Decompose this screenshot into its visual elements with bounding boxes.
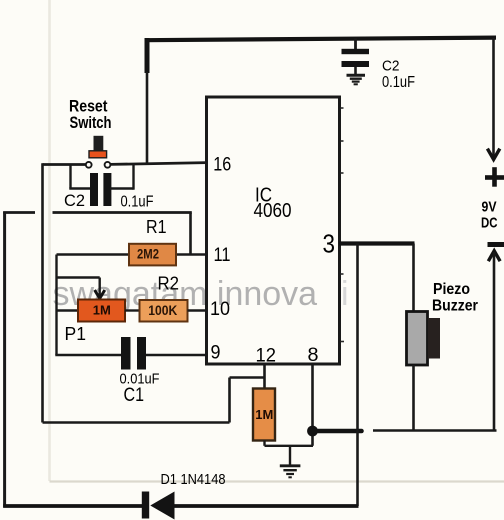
resistor R1 left lead <box>57 253 130 255</box>
wire: buzzer top drop <box>412 244 415 313</box>
arrowhead up toward battery - <box>488 251 500 261</box>
arrowhead down into battery + <box>487 149 499 160</box>
wire: thick stub from node to right <box>313 429 362 434</box>
arrowhead of P1 wiper <box>95 290 105 298</box>
wire: switch / pin16 wire <box>43 163 86 166</box>
wire: bottom rail right of diode <box>174 504 359 508</box>
capacitor C2 (top) plate 2 <box>342 61 370 67</box>
wire: vertical bus x=56 <box>55 255 57 356</box>
svg-text:11: 11 <box>214 244 231 266</box>
svg-text:C2: C2 <box>382 58 400 75</box>
svg-text:9V: 9V <box>482 199 497 216</box>
potentiometer P1 1M body <box>78 300 125 322</box>
wire: right drop to battery plus <box>492 38 495 157</box>
wire: pin 3 output <box>339 241 415 245</box>
wire: loop right vertical <box>228 378 231 423</box>
reset switch plunger <box>94 136 104 152</box>
svg-text:8: 8 <box>308 344 319 366</box>
watermark frame horizontal <box>50 480 504 482</box>
capacitor C2 (switch) plate right <box>103 173 111 206</box>
wire: from battery minus down to bottom-right rail <box>493 252 496 431</box>
wire: thick left drop from top rail <box>145 38 150 73</box>
capacitor C2 (top) stem <box>354 39 357 50</box>
wire: left rail (outer) <box>3 212 6 508</box>
wire: bottom rail left of diode <box>3 504 143 508</box>
svg-text:Reset: Reset <box>69 98 108 116</box>
svg-text:i: i <box>341 275 349 313</box>
junction node dot <box>307 426 318 437</box>
capacitor C2 (top) lower stem <box>354 67 357 74</box>
wire: top supply rail <box>145 38 497 41</box>
potentiometer P1 left lead <box>57 309 79 311</box>
resistor R2 100K body <box>140 300 188 322</box>
svg-text:DC: DC <box>481 215 498 232</box>
wire: between P1 and R2 <box>125 309 140 311</box>
svg-text:1M: 1M <box>93 303 111 318</box>
wire: left drop continues to switch wire <box>146 72 149 164</box>
wire: buzzer bottom drop <box>412 365 415 431</box>
battery plus symbol <box>485 175 504 180</box>
wire: loop bottom <box>43 421 230 424</box>
capacitor C2 (top) plate 1 <box>342 49 370 54</box>
wire: pin11 top link, left segment <box>3 211 35 214</box>
watermark frame vertical <box>48 0 51 481</box>
svg-text:16: 16 <box>213 153 231 175</box>
capacitor C1 plate right <box>137 337 146 370</box>
svg-text:0.1uF: 0.1uF <box>382 74 415 91</box>
svg-text:D1 1N4148: D1 1N4148 <box>161 471 226 488</box>
resistor R3 1M vertical body <box>253 389 275 441</box>
capacitor C1 left wire <box>55 354 121 356</box>
svg-text:R1: R1 <box>146 217 167 237</box>
svg-text:Buzzer: Buzzer <box>432 298 478 315</box>
svg-text:1M: 1M <box>255 407 273 422</box>
svg-text:0.1uF: 0.1uF <box>121 194 154 211</box>
capacitor C1 right wire to pin 9 <box>146 354 206 356</box>
capacitor C2 (switch) left branch <box>69 165 71 189</box>
battery minus bar <box>488 242 504 247</box>
svg-text:C2: C2 <box>64 192 85 210</box>
IC U1 4060 body <box>207 97 340 364</box>
wire: pin3 branch down to bottom <box>356 244 359 507</box>
svg-text:3: 3 <box>323 231 336 259</box>
resistor R2 right lead to pin 10 <box>188 309 207 311</box>
capacitor C2 (switch) right branch <box>110 187 134 189</box>
svg-text:Piezo: Piezo <box>433 281 470 298</box>
capacitor C2 (switch) plate left <box>90 173 98 206</box>
switch terminal circle left <box>86 162 92 168</box>
svg-text:100K: 100K <box>148 303 177 318</box>
piezo buzzer body <box>407 312 428 366</box>
wire: bottom-right rail (after jump) <box>373 429 497 432</box>
diode D1 triangle <box>150 492 174 520</box>
svg-text:2M2: 2M2 <box>137 247 159 262</box>
wire: pin 12 drop <box>263 363 266 389</box>
svg-text:Switch: Switch <box>70 114 112 132</box>
svg-text:9: 9 <box>211 342 221 364</box>
wire: left loop vertical x=42 <box>41 163 44 422</box>
wire: drop from pin11 link to R1 right lead <box>189 213 192 255</box>
resistor R1 right lead <box>176 253 206 255</box>
svg-text:10: 10 <box>210 298 230 320</box>
resistor R1 2M2 body <box>129 244 176 266</box>
ground under C2 (top) <box>347 75 366 84</box>
diode D1 cathode bar <box>142 492 149 519</box>
pin tick marks on IC right edge <box>341 108 345 342</box>
svg-text:R2: R2 <box>158 274 180 294</box>
piezo buzzer dark element <box>428 318 440 359</box>
ground symbol <box>280 466 301 478</box>
reset switch base <box>89 151 107 158</box>
capacitor C1 plate left <box>121 337 131 370</box>
wire: R3 bottom to ground/pin8 node <box>263 441 265 446</box>
wire: pin 8 drop <box>311 363 314 446</box>
svg-text:C1: C1 <box>124 384 145 406</box>
ground stem under R3 <box>289 446 291 465</box>
wire: loop to pin12 vertical <box>230 376 265 379</box>
switch terminal circle right <box>105 162 111 168</box>
wire: pin11 top link, right segment (jumps x=42 wire) <box>53 211 192 214</box>
svg-text:P1: P1 <box>65 323 87 344</box>
wire: wiper branch <box>57 276 100 278</box>
svg-text:4060: 4060 <box>254 200 292 222</box>
